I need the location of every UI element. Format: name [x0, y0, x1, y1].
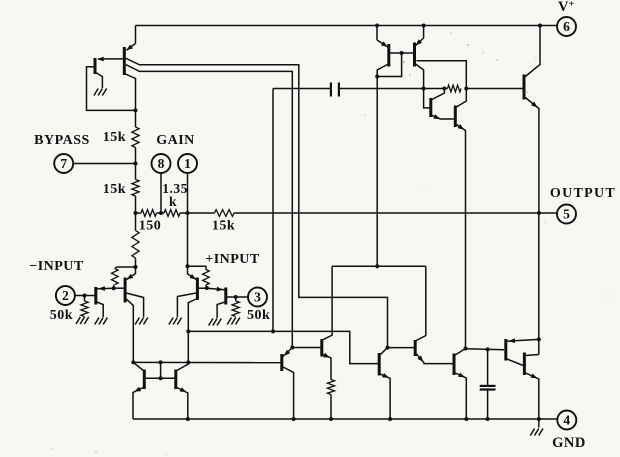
wire: node F left corner down to Q15 collector: [323, 266, 333, 340]
ground at R7: [236, 318, 240, 325]
node: pin 8 junction on gain bus: [159, 211, 163, 215]
pin 6 V+ terminal: [557, 17, 576, 36]
arrow: Q15 emitter: [323, 353, 330, 358]
capacitor C2 (output stage): [480, 349, 496, 419]
svg-text:15k: 15k: [103, 130, 126, 145]
wire: Q7 collector to V+ rail: [525, 26, 540, 77]
wire: Q18 emitter to ground rail: [455, 373, 466, 419]
wire: Q2 collector to ground: [96, 73, 103, 89]
wire: Q18 collector up to node G: [455, 349, 465, 356]
ground at Q9 upper collector: [144, 318, 148, 325]
wire: Q1 third collector down to bias node: [124, 74, 135, 111]
node: Q9 base node: [112, 286, 116, 290]
resistor R (left column, below bus): [132, 231, 139, 268]
pin 3 +INPUT terminal: [248, 288, 267, 307]
wire: left column down from gain bus: [135, 213, 137, 231]
wire: mirror diode tie vertical: [160, 362, 162, 378]
resistor R9 (Q10 base-emitter): [203, 266, 210, 288]
transistor Q13 (NPN mirror right): [176, 362, 189, 389]
resistor R10 (across Q5/Q6): [448, 85, 462, 92]
wire: node G to Q19 base: [466, 349, 505, 350]
wire: Q11 collector to ground: [217, 302, 225, 318]
pin 8 GAIN terminal: [152, 154, 171, 173]
transistor Q1 (PNP, top-left): [124, 44, 135, 76]
node G: Q18 collector junction: [464, 347, 468, 351]
arrow: Q7 emitter: [531, 102, 538, 108]
svg-text:OUTPUT: OUTPUT: [550, 186, 616, 201]
node: pin 1 junction / feedback node: [186, 211, 190, 215]
arrow: Q11 emitter: [217, 287, 224, 292]
svg-text:3: 3: [254, 290, 261, 305]
wire: Q2 base loop to bias node: [87, 67, 136, 111]
wire: node D to Q17 base: [388, 347, 415, 349]
node: bypass node (pin 7 junction): [134, 162, 138, 166]
resistor R4 1.35k: [161, 210, 188, 217]
wire: Q1 emitter from V+ rail: [135, 26, 137, 44]
node: Q18 emitter on ground rail: [464, 417, 468, 421]
resistor R2 15k (lower): [132, 164, 139, 214]
svg-text:50k: 50k: [247, 308, 270, 323]
wire: Q10 upper collector to ground: [177, 293, 196, 317]
node: right column emitter node: [186, 264, 190, 268]
svg-text:50k: 50k: [50, 308, 73, 323]
svg-text:BYPASS: BYPASS: [34, 133, 90, 148]
wire: Q19 collector to Q20 base: [507, 359, 523, 366]
wire: mirror diode tie (base to Q3 collector): [377, 53, 401, 77]
node: diode tie on mirror bus: [159, 360, 163, 364]
transistor Q11 (PNP, +input emitter follower): [224, 288, 227, 305]
wire: Q5 emitter to Q6 base: [432, 116, 454, 120]
resistor R3 150: [136, 210, 162, 217]
svg-text:GND: GND: [552, 435, 586, 451]
arrow: Q12 emitter: [134, 387, 141, 392]
wire: Q15 emitter down through R11 to ground rail: [323, 355, 331, 380]
node: Q16 emitter on ground rail: [388, 417, 392, 421]
arrow: Q18 emitter: [458, 373, 465, 378]
svg-text:7: 7: [60, 156, 67, 171]
arrow: Q14 emitter: [284, 350, 290, 356]
arrow: Q9 emitter: [127, 274, 134, 280]
wire: pin 3 to Q11 base node: [227, 296, 248, 298]
svg-text:8: 8: [158, 156, 165, 171]
wire: Q19 emitter to output node vertical: [507, 339, 539, 341]
wire: Q9 upper collector to ground: [126, 293, 143, 317]
transistor Q4 (PNP current mirror right): [415, 26, 424, 67]
transistor Q16 (NPN third stage): [378, 353, 381, 376]
node: Q19 emitter junction on output vertical: [537, 337, 541, 341]
transistor Q9 (PNP, -input): [114, 278, 125, 303]
ground at R6: [84, 317, 88, 324]
wire: Q5 collector up to comp bus: [432, 89, 444, 100]
wire: left emitter node to Q9 emitter: [127, 267, 136, 280]
transistor Q2 (PNP, diode-connected, top-left): [95, 57, 123, 74]
ground at Q2 collector: [102, 89, 106, 96]
wire: node F right corner down to Q17 collector: [416, 266, 426, 340]
wire: node B to Q15 base: [292, 347, 321, 349]
arrow: Q5 emitter: [433, 114, 440, 119]
wire: jog from left column to R8: [117, 266, 136, 268]
wire: Q14 emitter up to node B: [283, 348, 292, 357]
pin 7 BYPASS terminal: [54, 154, 73, 173]
arrow: Q6 emitter: [458, 124, 465, 130]
ground at Q8 collector: [103, 318, 107, 325]
wire: V+ supply rail: [136, 25, 558, 27]
capacitor C1 (compensation): [331, 83, 339, 97]
node: C2 bottom on ground rail: [486, 417, 490, 421]
svg-text:15k: 15k: [103, 182, 126, 197]
svg-text:k: k: [169, 194, 177, 209]
wire: node F horizontal (Q3 collector feed): [332, 265, 426, 267]
wire: capacitor C1 to Q4 collector junction: [339, 88, 424, 90]
wire: comp bus to Q7 base: [466, 88, 523, 90]
transistor Q18 (NPN): [453, 354, 456, 376]
transistor Q10 (PNP, +input): [197, 278, 207, 301]
pin 4 GND terminal: [557, 411, 576, 430]
wire: pin 1 down through gain bus to +input cell: [187, 173, 189, 266]
wire: Q12 emitter to ground rail: [133, 388, 143, 420]
resistor R8 (Q9 base-emitter): [112, 267, 119, 288]
wire: Q7 emitter down to output node: [525, 98, 539, 214]
transistor Q6 (NPN): [454, 106, 457, 128]
wire: pin 2 to Q8 base node: [75, 295, 95, 297]
transistor Q12 (NPN mirror left): [133, 362, 144, 389]
transistor Q14 (PNP second stage): [280, 354, 283, 371]
wire: Q8 emitter to Q9 base node: [97, 287, 114, 290]
wire: Q8 collector to ground: [97, 302, 103, 317]
wire: Q4 collector stub right and down to R10 right node: [417, 61, 467, 89]
node: left column emitter node: [134, 265, 138, 269]
wire: Q1 lower collector to node B (2nd stage emitter): [126, 65, 292, 348]
node: C2 top junction: [486, 347, 490, 351]
wire: output vertical to Q20 collector: [538, 339, 540, 354]
resistor R5 15k (feedback to output): [188, 210, 235, 217]
svg-text:+INPUT: +INPUT: [205, 252, 260, 267]
resistor R6 50k (-input): [81, 296, 88, 317]
wire: Q14 collector to ground rail: [283, 367, 294, 419]
transistor Q19 (PNP output): [504, 339, 507, 361]
node junction on V+ rail at Q4 emitter: [422, 24, 426, 28]
svg-text:5: 5: [563, 207, 570, 222]
wire: comp bus from left vertical to capacitor C1: [273, 88, 331, 90]
wire: first stage output bus to Q14 base: [133, 361, 280, 363]
arrow: Q10 emitter: [189, 274, 196, 280]
wire: Q3 collector down to node E: [377, 64, 388, 77]
wire: Q1 upper collector to node D (down right side): [126, 58, 388, 347]
node: base tie junction: [159, 376, 163, 380]
wire: Q13 emitter to ground rail: [177, 388, 188, 420]
wire: Q9 lower collector down to mirror input node: [126, 299, 133, 362]
wire: Q3-Q4 base tie: [389, 52, 414, 54]
transistor Q20 (NPN output): [523, 353, 526, 376]
node: bias node above R1: [134, 108, 138, 112]
wire: right emitter node to Q10 emitter: [188, 266, 197, 279]
node: mirror output junction: [186, 360, 190, 364]
arrow: Q13 emitter: [180, 387, 187, 392]
wire: Q20 emitter to ground rail: [526, 373, 539, 419]
node: output node at pin 5: [537, 211, 541, 215]
wire: Q4 collector down to compensation bus: [416, 64, 424, 89]
wire: Q6 collector up to comp bus: [457, 89, 467, 108]
wire: Q10 lower collector down to mirror output node: [188, 299, 196, 362]
wire: Q16 emitter to ground rail: [380, 374, 390, 419]
arrow: Q19 emitter: [508, 338, 515, 343]
node: pin 2 node: [83, 294, 87, 298]
node junction on V+ rail at Q3 emitter: [375, 24, 379, 28]
ground at Q10 upper collector: [177, 318, 181, 325]
node: mirror base node: [400, 51, 404, 55]
svg-text:−INPUT: −INPUT: [29, 259, 84, 274]
ground symbol GND at pin 4: [530, 419, 543, 436]
wire: output vertical from pin5 node down: [538, 213, 540, 339]
node F: junction with node E vertical: [375, 264, 379, 268]
wire: Q17 emitter to Q18 base: [416, 354, 452, 364]
ground at Q11 collector: [217, 319, 221, 326]
wire: Q16 collector up to node D: [380, 348, 387, 355]
svg-text:15k: 15k: [212, 219, 235, 234]
wire: Q11 emitter from Q10 base node: [207, 288, 225, 290]
transistor Q8 (PNP, -input emitter follower): [94, 287, 97, 305]
node: Q14 collector on ground rail: [292, 417, 296, 421]
wire A: first stage to Q16 base: [188, 331, 378, 363]
node: pin 3 node: [234, 295, 238, 299]
node: Q4 collector junction on comp bus: [422, 87, 426, 91]
wire: feedback/output line to pin 5: [234, 212, 557, 214]
node: Q10 base node: [205, 286, 209, 290]
node: Q6 collector junction on comp bus: [464, 87, 468, 91]
wire: jog from pin1 column to R9: [188, 265, 207, 267]
wire: Q20 collector up to output vertical: [526, 355, 539, 356]
wire: pin 8 to gain bus: [160, 173, 162, 213]
wire: comp bus from Q4 junction to R10: [424, 88, 448, 90]
node: node E (Q3 collector): [375, 75, 379, 79]
wire: comp bus left vertical from node A down to wire A junction: [272, 89, 274, 332]
resistor R1 15k (upper): [132, 110, 139, 163]
node: Q5 collector junction on comp bus: [442, 87, 446, 91]
node: R11 on ground rail: [329, 417, 333, 421]
node: Q13 emitter on ground rail: [186, 417, 190, 421]
node B: Q14 emitter / Q15 base node: [290, 346, 294, 350]
svg-text:150: 150: [139, 219, 162, 234]
svg-text:1: 1: [184, 156, 191, 171]
wire: Q6 emitter long vertical down to node G: [457, 125, 466, 349]
transistor Q17 (NPN driver): [414, 340, 417, 356]
node: comp-cap tap junction on wire A: [271, 329, 275, 333]
svg-text:4: 4: [563, 413, 570, 428]
node: R2/R3 junction on gain bus: [134, 211, 138, 215]
resistor R11 (Q15 emitter): [327, 380, 334, 420]
pin 2 -INPUT terminal: [56, 286, 75, 305]
wire: Q12-Q13 base tie: [145, 377, 176, 379]
node: pin 4 ground junction: [537, 417, 541, 421]
svg-text:6: 6: [563, 19, 570, 34]
node junction on V+ rail at Q7 collector: [538, 24, 542, 28]
wire: ground rail: [133, 418, 557, 420]
arrow: Q20 emitter: [531, 374, 538, 379]
wire: pin 7 to bypass node: [73, 163, 135, 165]
node: mirror input corner node: [131, 360, 135, 364]
svg-text:2: 2: [62, 288, 69, 303]
pin 5 OUTPUT terminal: [557, 205, 576, 224]
transistor Q15 (NPN): [320, 339, 323, 357]
transistor Q7 (NPN output, top-right): [523, 75, 526, 100]
arrow: Q8 emitter: [98, 286, 105, 291]
scan speckles (decorative): [467, 44, 469, 46]
transistor Q3 (PNP current mirror left): [377, 26, 389, 67]
transistor Q5 (NPN): [424, 89, 431, 118]
node D: Q16 collector / Q17 base node: [386, 346, 390, 350]
resistor R7 50k (+input): [232, 297, 239, 317]
node: wire-A tap on Q10 collector line: [186, 329, 190, 333]
arrow: Q17 emitter: [417, 356, 423, 363]
arrow: Q16 emitter: [382, 373, 389, 378]
svg-text:GAIN: GAIN: [156, 133, 195, 148]
wire: node E long vertical down to node F: [376, 77, 378, 267]
pin 1 GAIN terminal: [178, 154, 197, 173]
